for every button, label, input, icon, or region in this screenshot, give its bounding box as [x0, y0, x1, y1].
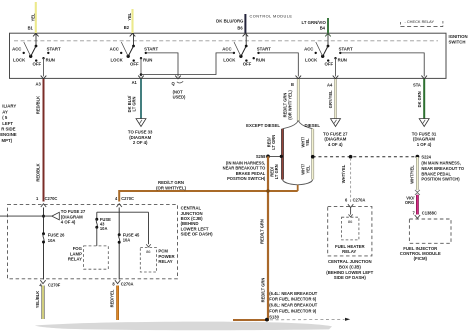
- connector 6 C270A: [345, 197, 365, 207]
- pin B6 chevron: [243, 33, 249, 36]
- wire WHT/YEL diesel branch: [300, 129, 312, 180]
- svg-text:CENTRAL JUNCTION: CENTRAL JUNCTION: [328, 259, 372, 264]
- dashed tie line with splice S224: [311, 155, 465, 182]
- svg-text:S258: S258: [256, 154, 266, 159]
- wire DK BLU/ORG to pin B6: [216, 14, 245, 33]
- svg-text:(IN MAIN HARNESS,: (IN MAIN HARNESS,: [421, 161, 460, 166]
- svg-text:RED/BLK: RED/BLK: [36, 163, 41, 181]
- fuel injector control module box: [400, 219, 451, 261]
- wire YEL to pin B2: [124, 9, 133, 33]
- svg-text:4 OF 4): 4 OF 4): [328, 142, 343, 147]
- svg-text:(6.4L: NEAR BREAKOUT: (6.4L: NEAR BREAKOUT: [269, 291, 317, 296]
- ignition switch box: [10, 33, 468, 78]
- svg-text:B1: B1: [28, 25, 34, 30]
- svg-text:CONTROL MODULE: CONTROL MODULE: [250, 13, 293, 18]
- svg-text:RELAY: RELAY: [68, 257, 82, 262]
- splice S258: [223, 154, 283, 181]
- wire: SW2 START to pin Q: [146, 53, 178, 77]
- wire RED/LT GRN (OR WHT/YEL) from pin B: [282, 79, 298, 121]
- pcm power relay: [140, 212, 175, 272]
- svg-text:SIDE OF DASH): SIDE OF DASH): [181, 232, 214, 237]
- svg-text:A3: A3: [36, 82, 42, 87]
- svg-text:- CHECK RELAY: - CHECK RELAY: [405, 19, 435, 24]
- wire GRY/YEL from A4: [328, 79, 335, 118]
- pin A4 chevron: [333, 76, 339, 79]
- pin B4 chevron: [325, 33, 331, 36]
- note: auxiliary relay box (cut off): [0, 104, 17, 143]
- svg-text:YEL/BLK: YEL/BLK: [35, 291, 40, 309]
- svg-text:C270A: C270A: [353, 197, 366, 202]
- svg-text:B2: B2: [124, 25, 130, 30]
- connector 8 C270A: [112, 280, 133, 286]
- off-page arrow to fuse 31: [412, 119, 437, 147]
- svg-text:GRY/YEL: GRY/YEL: [328, 90, 333, 108]
- pin A1 chevron: [138, 76, 144, 79]
- svg-text:LT GRN/VIO: LT GRN/VIO: [302, 20, 327, 25]
- svg-text:8: 8: [112, 281, 115, 286]
- wire: A1 junction to SW3 ACC contact: [141, 53, 234, 75]
- pin label A4: [327, 82, 333, 87]
- pin label A3: [36, 82, 42, 87]
- svg-text:SWITCH: SWITCH: [449, 40, 466, 45]
- cjb main column wire: [97, 208, 149, 280]
- svg-text:S224: S224: [421, 155, 431, 160]
- svg-text:LT GRN: LT GRN: [271, 135, 276, 150]
- wire: SW1 RUN to pin A3: [43, 58, 45, 76]
- fuse 45: [118, 233, 140, 244]
- wire LT GRN/VIO to pin B4: [302, 18, 328, 33]
- svg-text:10A: 10A: [48, 238, 56, 243]
- svg-text:Q: Q: [172, 81, 176, 86]
- pin label B: [291, 82, 294, 87]
- svg-text:WHT/YEL: WHT/YEL: [341, 164, 346, 183]
- svg-text:6: 6: [345, 197, 348, 202]
- svg-text:RED/LT GRN: RED/LT GRN: [259, 219, 264, 244]
- svg-text:BRAKE PEDAL: BRAKE PEDAL: [421, 171, 451, 176]
- svg-text:LEFT: LEFT: [2, 121, 13, 126]
- off-page arrow to fuse 27: [323, 119, 348, 147]
- svg-text:STA: STA: [413, 82, 421, 87]
- svg-text:RELAY: RELAY: [342, 249, 356, 254]
- svg-text:B6: B6: [237, 25, 243, 30]
- svg-text:RED/BLK: RED/BLK: [36, 96, 41, 114]
- svg-text:C270A: C270A: [121, 281, 134, 286]
- off-page arrow to fuse 33: [128, 119, 153, 145]
- svg-text:ILIARY: ILIARY: [2, 104, 16, 109]
- node: to-fuse-27 tap: [0, 215, 52, 218]
- wire YEL to pin B1: [28, 2, 36, 33]
- svg-text:DK BLU/ORG: DK BLU/ORG: [216, 18, 244, 23]
- inline connector on injector feed: [415, 190, 420, 195]
- svg-text:YEL: YEL: [127, 12, 132, 20]
- svg-text:4 OF 4): 4 OF 4): [61, 220, 76, 225]
- svg-text:AY: AY: [2, 109, 8, 114]
- wire RED/LT GRN except-diesel branch: [266, 129, 282, 180]
- wire RED/YEL: [110, 286, 118, 321]
- svg-text:( 5: ( 5: [2, 115, 8, 120]
- svg-text:NEAR BREAKOUT TO: NEAR BREAKOUT TO: [421, 166, 464, 171]
- svg-text:USED): USED): [173, 95, 186, 100]
- svg-text:MPT): MPT): [2, 138, 13, 143]
- wire RED/LT GRN (OR WHT/YEL) to C270C pin 4: [119, 180, 298, 201]
- connector 4 C270C: [115, 196, 134, 207]
- svg-text:BOX (CJB): BOX (CJB): [339, 265, 362, 270]
- svg-text:SIDE OF DASH): SIDE OF DASH): [334, 275, 367, 280]
- connector 4 C270F: [39, 280, 60, 287]
- svg-text:B4: B4: [320, 25, 326, 30]
- mechanical linkage dashed line: [14, 40, 438, 42]
- splice S130: [233, 291, 350, 322]
- svg-text:YEL: YEL: [30, 13, 35, 21]
- svg-text:(BEHIND LOWER LEFT: (BEHIND LOWER LEFT: [326, 270, 373, 275]
- wire: SW2 RUN to pin A1: [140, 58, 142, 76]
- wire RED/LT GRN from S258 to S130: [259, 156, 269, 320]
- svg-text:FOR FUEL INJECTOR 6): FOR FUEL INJECTOR 6): [269, 297, 317, 302]
- svg-text:B: B: [291, 82, 294, 87]
- switch pole 3: [222, 33, 271, 66]
- pin label STA: [413, 82, 421, 87]
- svg-text:(OR WHT/ YEL): (OR WHT/ YEL): [287, 90, 292, 120]
- svg-text:C270C: C270C: [45, 196, 58, 201]
- switch pole 1: [12, 33, 61, 66]
- svg-text:RED/LT GRN: RED/LT GRN: [261, 278, 266, 303]
- faded note: control module: [250, 13, 293, 18]
- central junction box (left): [8, 205, 214, 279]
- svg-text:10A: 10A: [100, 226, 108, 231]
- scan artifact smudge: [35, 322, 332, 331]
- pin label A1: [132, 80, 138, 85]
- svg-text:IGNITION: IGNITION: [449, 34, 468, 39]
- pin label Q: [172, 81, 186, 100]
- pin A3 chevron: [41, 76, 47, 79]
- svg-text:RELAY: RELAY: [158, 259, 172, 264]
- svg-text:4: 4: [115, 196, 118, 201]
- fuel heater relay CJB box: [326, 207, 373, 281]
- svg-text:DIESEL: DIESEL: [305, 123, 321, 128]
- fuse 43 branch: [95, 212, 111, 246]
- svg-text:WHT/YEL: WHT/YEL: [410, 165, 415, 184]
- svg-text:(6.8L: NEAR BREAKOUT: (6.8L: NEAR BREAKOUT: [269, 303, 317, 308]
- wire DK BLU/LT GRN from A1: [127, 79, 141, 118]
- fog lamp relay box: [68, 246, 108, 269]
- svg-text:A1: A1: [132, 80, 138, 85]
- svg-text:POSITION SWITCH): POSITION SWITCH): [421, 177, 460, 182]
- connector 1 C270C: [36, 196, 57, 207]
- svg-text:RED/YEL: RED/YEL: [110, 289, 115, 307]
- pin B1 chevron: [33, 33, 39, 36]
- pin STA chevron: [421, 76, 427, 79]
- svg-text:YEL: YEL: [305, 138, 310, 146]
- wire RED/BLK from A3 to C270C pin 1: [36, 79, 44, 202]
- svg-text:1 OF 4): 1 OF 4): [417, 142, 432, 147]
- pin Q chevron: [175, 76, 181, 79]
- svg-text:YEL: YEL: [305, 165, 310, 173]
- split brace except diesel / diesel: [246, 121, 320, 129]
- svg-text:FOR FUEL INJECTOR 9): FOR FUEL INJECTOR 9): [269, 309, 317, 314]
- node: junction on A1 drop: [140, 73, 143, 76]
- fuse 26: [42, 232, 65, 243]
- svg-text:2 OF 4): 2 OF 4): [133, 140, 148, 145]
- cjb left column wire: [43, 208, 45, 280]
- svg-text:R SIDE: R SIDE: [1, 127, 15, 132]
- clock relay dashed box fragment: [401, 19, 444, 26]
- svg-text:C1388C: C1388C: [422, 211, 437, 216]
- wire WHT/YEL from S224: [410, 157, 418, 190]
- svg-text:1: 1: [36, 196, 39, 201]
- svg-text:POSITION SWITCH): POSITION SWITCH): [227, 176, 266, 181]
- svg-text:86: 86: [348, 219, 353, 224]
- wire: SW4 RUN to pin A4: [335, 58, 337, 76]
- svg-text:ENGINE: ENGINE: [0, 132, 17, 137]
- svg-text:EXCEPT DIESEL: EXCEPT DIESEL: [246, 123, 280, 128]
- svg-text:DK GRN: DK GRN: [417, 91, 422, 107]
- svg-text:LT GRN: LT GRN: [274, 164, 279, 179]
- dashed drop to fuel heater relay: [341, 158, 351, 203]
- svg-text:(OR WHT/YEL): (OR WHT/YEL): [156, 185, 186, 190]
- svg-text:10A: 10A: [123, 238, 131, 243]
- svg-text:C270F: C270F: [48, 283, 61, 288]
- wire DK GRN from STA: [417, 79, 424, 118]
- svg-text:(FICM): (FICM): [414, 256, 428, 261]
- fuel heater relay coil box: [342, 208, 359, 240]
- svg-text:LT GRN: LT GRN: [131, 96, 136, 111]
- wire: SW3 START to pin B: [259, 53, 299, 77]
- svg-text:S130: S130: [269, 314, 279, 319]
- wire: SW4 START to pin STA: [340, 53, 424, 77]
- wire YEL/BLK: [35, 286, 43, 320]
- switch pole 4: [304, 33, 353, 66]
- pin B2 chevron: [130, 33, 136, 36]
- pin B chevron: [296, 76, 302, 79]
- wire VIO/ORG: [405, 195, 418, 215]
- connector 7 C1388C: [413, 211, 437, 219]
- switch pole 2: [110, 33, 159, 66]
- off-page arrow to fuse 27 (cjb): [52, 209, 86, 224]
- svg-text:ORG: ORG: [405, 200, 414, 205]
- svg-text:C270C: C270C: [121, 196, 134, 201]
- merge brace of branches: [283, 180, 313, 192]
- svg-text:86: 86: [146, 249, 151, 254]
- svg-text:A4: A4: [327, 82, 333, 87]
